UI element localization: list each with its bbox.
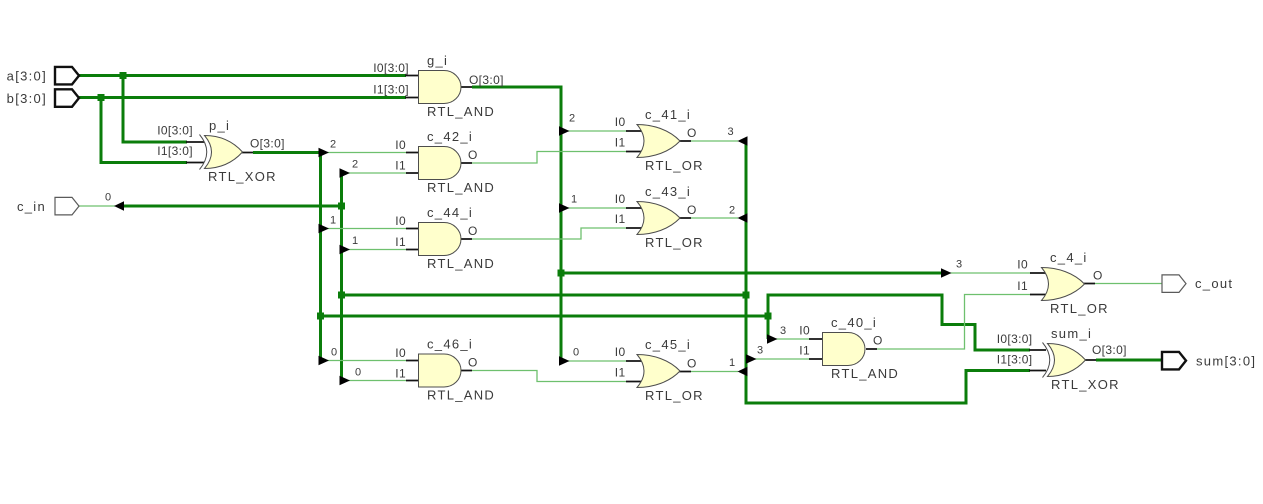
svg-text:I1: I1	[615, 136, 626, 150]
svg-text:RTL_XOR: RTL_XOR	[1051, 377, 1120, 392]
svg-text:c_41_i: c_41_i	[645, 107, 691, 122]
svg-text:O[3:0]: O[3:0]	[250, 137, 285, 151]
svg-text:c_46_i: c_46_i	[427, 337, 473, 352]
svg-text:RTL_XOR: RTL_XOR	[208, 169, 277, 184]
svg-text:O[3:0]: O[3:0]	[1092, 343, 1127, 357]
svg-text:O: O	[468, 148, 478, 162]
svg-text:I0[3:0]: I0[3:0]	[157, 124, 193, 138]
svg-text:c_45_i: c_45_i	[645, 337, 691, 352]
svg-text:RTL_AND: RTL_AND	[427, 256, 495, 271]
svg-text:I1: I1	[395, 159, 406, 173]
svg-text:I0: I0	[615, 345, 626, 359]
svg-text:I0: I0	[395, 214, 406, 228]
svg-text:1: 1	[352, 235, 358, 247]
svg-text:I1[3:0]: I1[3:0]	[997, 353, 1033, 367]
svg-text:I0: I0	[615, 192, 626, 206]
svg-text:RTL_OR: RTL_OR	[645, 235, 704, 250]
svg-text:c_43_i: c_43_i	[645, 184, 691, 199]
svg-text:2: 2	[352, 159, 358, 171]
svg-text:1: 1	[729, 357, 735, 369]
svg-text:c_4_i: c_4_i	[1050, 250, 1088, 265]
svg-text:b[3:0]: b[3:0]	[7, 91, 47, 106]
svg-text:O: O	[468, 224, 478, 238]
svg-text:0: 0	[331, 347, 337, 359]
svg-text:3: 3	[728, 126, 734, 138]
svg-text:I0: I0	[395, 138, 406, 152]
svg-text:I1: I1	[615, 212, 626, 226]
svg-text:sum_i: sum_i	[1051, 326, 1092, 341]
svg-text:O[3:0]: O[3:0]	[469, 73, 504, 87]
svg-text:2: 2	[330, 139, 336, 151]
svg-text:I1: I1	[1017, 279, 1028, 293]
svg-text:I0[3:0]: I0[3:0]	[373, 61, 409, 75]
svg-text:2: 2	[729, 205, 735, 217]
svg-text:c_out: c_out	[1195, 276, 1233, 291]
svg-text:I1[3:0]: I1[3:0]	[373, 83, 409, 97]
svg-text:0: 0	[573, 347, 579, 359]
svg-text:I1: I1	[799, 344, 810, 358]
svg-text:c_42_i: c_42_i	[427, 129, 473, 144]
svg-text:3: 3	[780, 325, 786, 337]
svg-text:O: O	[873, 334, 883, 348]
svg-text:O: O	[687, 357, 697, 371]
svg-text:0: 0	[355, 367, 361, 379]
svg-text:RTL_AND: RTL_AND	[427, 388, 495, 403]
svg-text:RTL_OR: RTL_OR	[1050, 301, 1109, 316]
svg-text:c_in: c_in	[17, 199, 46, 214]
svg-text:I0: I0	[395, 346, 406, 360]
svg-text:I0: I0	[615, 115, 626, 129]
svg-text:p_i: p_i	[209, 118, 230, 133]
svg-text:2: 2	[569, 113, 575, 125]
svg-text:I1: I1	[395, 235, 406, 249]
svg-text:c_44_i: c_44_i	[427, 205, 473, 220]
svg-text:1: 1	[571, 194, 577, 206]
svg-text:I1: I1	[395, 367, 406, 381]
svg-text:I0[3:0]: I0[3:0]	[997, 332, 1033, 346]
svg-text:O: O	[1093, 269, 1103, 283]
svg-text:RTL_AND: RTL_AND	[831, 366, 899, 381]
svg-text:O: O	[468, 356, 478, 370]
svg-text:1: 1	[330, 215, 336, 227]
svg-text:c_40_i: c_40_i	[831, 315, 877, 330]
svg-text:3: 3	[956, 259, 962, 271]
svg-text:a[3:0]: a[3:0]	[7, 69, 47, 84]
svg-text:sum[3:0]: sum[3:0]	[1196, 354, 1256, 369]
svg-text:3: 3	[757, 345, 763, 357]
svg-text:RTL_OR: RTL_OR	[645, 388, 704, 403]
svg-text:0: 0	[105, 192, 111, 204]
svg-text:O: O	[687, 126, 697, 140]
svg-text:I1: I1	[615, 366, 626, 380]
svg-text:RTL_AND: RTL_AND	[427, 104, 495, 119]
svg-text:O: O	[687, 203, 697, 217]
svg-text:RTL_OR: RTL_OR	[645, 158, 704, 173]
svg-text:g_i: g_i	[427, 53, 448, 68]
svg-text:RTL_AND: RTL_AND	[427, 180, 495, 195]
svg-text:I0: I0	[799, 324, 810, 338]
svg-text:I1[3:0]: I1[3:0]	[157, 144, 193, 158]
svg-text:I0: I0	[1017, 258, 1028, 272]
